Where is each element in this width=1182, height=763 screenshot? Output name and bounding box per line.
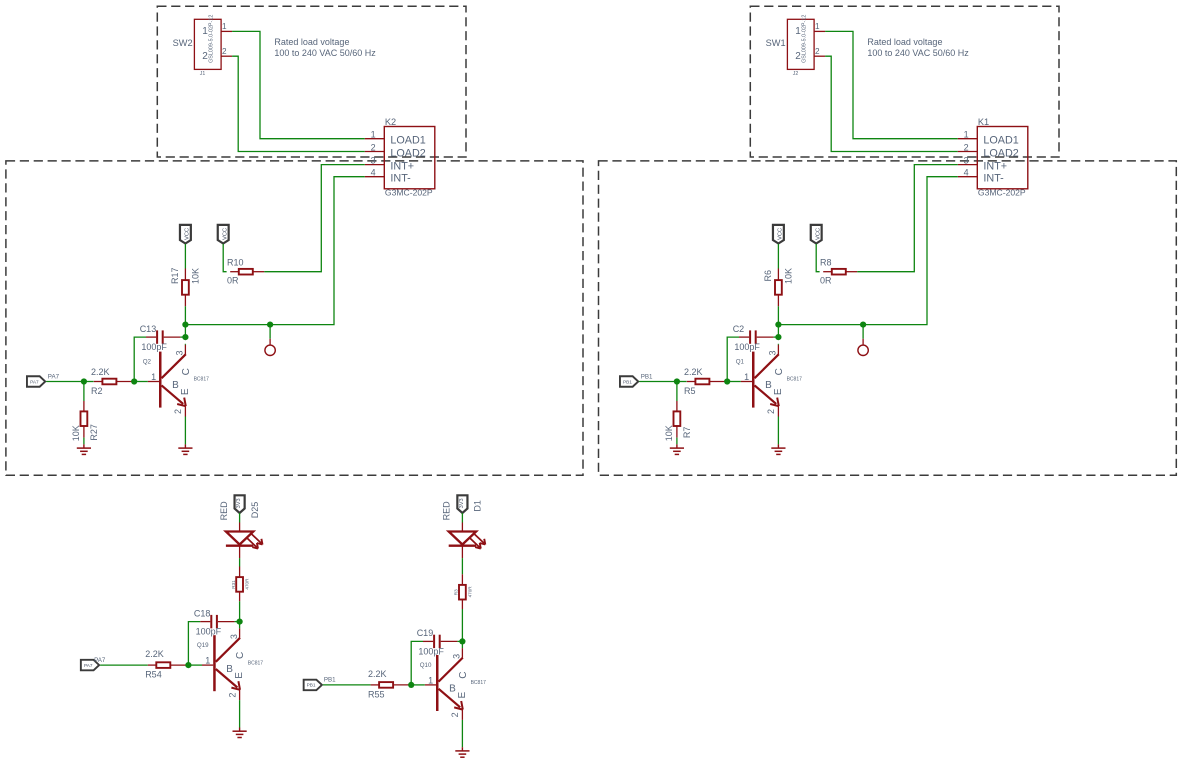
svg-text:VCC: VCC <box>223 228 229 240</box>
svg-text:VCC: VCC <box>778 228 784 240</box>
svg-text:2: 2 <box>173 409 183 414</box>
wire R pulldown to ground <box>676 438 678 445</box>
svg-text:100 to 240 VAC 50/60 Hz: 100 to 240 VAC 50/60 Hz <box>867 48 969 58</box>
junction LED-collector <box>237 619 243 625</box>
port flag PA7 <box>27 376 45 387</box>
port flag PB1 <box>304 680 322 691</box>
labels RED / diode name <box>219 501 260 521</box>
resistor R7 (10K) <box>664 401 692 441</box>
wire junction to base <box>411 684 425 686</box>
ground (emitter) <box>455 747 469 757</box>
wire 3V3 to LED <box>239 513 241 523</box>
svg-text:SW2: SW2 <box>173 38 193 48</box>
svg-text:3: 3 <box>371 155 376 165</box>
wire cap to base junction <box>188 622 200 666</box>
svg-text:B: B <box>765 380 772 391</box>
wire SW pin1 to K LOAD1 <box>232 31 365 138</box>
relay K2 (G3MC-202P) <box>365 117 435 198</box>
svg-text:RED: RED <box>442 501 452 521</box>
svg-text:100pF: 100pF <box>141 342 167 352</box>
resistor R6 (10K) <box>763 268 794 306</box>
svg-text:VCC: VCC <box>185 228 191 240</box>
note rated load voltage <box>867 37 969 58</box>
dashed frame (right load section) <box>750 6 1059 157</box>
ground (emitter) <box>771 444 785 454</box>
svg-text:1: 1 <box>151 372 156 382</box>
wire cap to junction <box>457 640 462 642</box>
svg-text:2.2K: 2.2K <box>368 669 387 679</box>
capacitor C19 (100pF) <box>417 628 458 656</box>
ground (emitter) <box>178 444 192 454</box>
supply VCC flag (0R column) <box>811 225 822 244</box>
connector SW1 (J2) <box>766 15 825 77</box>
svg-text:C: C <box>458 672 469 679</box>
junction base-pulldown <box>81 378 87 384</box>
wire cap to base junction <box>727 337 739 381</box>
svg-text:PB1: PB1 <box>623 379 632 384</box>
junction collector node <box>182 322 188 328</box>
resistor R2 <box>91 367 134 384</box>
svg-text:1: 1 <box>744 372 749 382</box>
svg-text:2: 2 <box>371 142 376 152</box>
svg-text:2.2K: 2.2K <box>91 367 110 377</box>
svg-text:E: E <box>773 388 784 395</box>
LED D25 (RED) <box>226 523 263 559</box>
svg-text:PA7: PA7 <box>30 379 39 384</box>
svg-text:LOAD1: LOAD1 <box>983 135 1018 147</box>
svg-text:100 to 240 VAC 50/60 Hz: 100 to 240 VAC 50/60 Hz <box>274 48 376 58</box>
capacitor C13 (100pF) <box>140 324 181 352</box>
labels RED / diode name <box>442 500 483 520</box>
svg-text:R17: R17 <box>170 267 180 284</box>
svg-text:2: 2 <box>227 693 237 698</box>
wire LED to R <box>461 558 463 574</box>
svg-text:R10: R10 <box>227 257 244 267</box>
resistor R31 (470R) <box>231 567 250 602</box>
dashed frame (left driver section) <box>6 161 583 475</box>
svg-text:R55: R55 <box>368 689 385 699</box>
wire cap to collector <box>773 336 778 338</box>
svg-text:GSL009-5.0-02P-12: GSL009-5.0-02P-12 <box>801 15 807 63</box>
supply VCC flag (0R column) <box>218 225 229 244</box>
wire junction to R base <box>84 381 94 383</box>
wire collector node to cap junction <box>184 325 186 338</box>
junction base <box>131 378 137 384</box>
capacitor C2 (100pF) <box>733 324 774 352</box>
capacitor C18 (100pF) <box>194 608 235 636</box>
svg-text:INT-: INT- <box>390 173 411 185</box>
wire K INT- to collector node <box>185 177 364 325</box>
wire port to R base <box>100 664 148 666</box>
svg-text:E: E <box>234 672 245 679</box>
relay K1 (G3MC-202P) <box>958 117 1028 198</box>
resistor R54 (2.2K) <box>145 649 188 680</box>
wire emitter to ground <box>461 720 463 747</box>
svg-text:3: 3 <box>229 634 239 639</box>
junction base <box>724 378 730 384</box>
svg-text:100pF: 100pF <box>418 646 444 656</box>
svg-text:R27: R27 <box>89 424 99 441</box>
wire R to collector junction <box>239 601 241 621</box>
resistor R8 <box>820 257 857 274</box>
port flag PA7 <box>81 660 99 671</box>
svg-text:2: 2 <box>964 142 969 152</box>
supply 3V3 <box>457 495 467 513</box>
svg-text:BC817: BC817 <box>248 660 264 666</box>
svg-text:10K: 10K <box>664 425 674 441</box>
svg-text:R8: R8 <box>820 257 832 267</box>
wire to open pin <box>269 325 271 339</box>
wire port to R base <box>323 684 371 686</box>
svg-text:R6: R6 <box>763 270 773 282</box>
transistor Q10 (BC817) NPN <box>420 648 486 720</box>
svg-text:3: 3 <box>452 654 462 659</box>
svg-text:10K: 10K <box>783 268 793 284</box>
wire emitter to ground <box>184 417 186 445</box>
svg-text:Q2: Q2 <box>143 359 152 366</box>
svg-text:VCC: VCC <box>816 228 822 240</box>
dashed frame (right driver section) <box>599 161 1177 475</box>
dashed frame (left load section) <box>157 6 466 157</box>
svg-text:R31: R31 <box>231 580 236 589</box>
supply VCC <box>180 225 191 244</box>
wire R 0R to K INT+ <box>264 165 365 272</box>
svg-text:Q19: Q19 <box>197 642 209 649</box>
svg-text:INT+: INT+ <box>390 161 414 173</box>
svg-text:Q1: Q1 <box>736 359 745 366</box>
wire port to base junction <box>46 381 84 383</box>
junction base <box>185 662 191 668</box>
wire junction to base <box>188 664 202 666</box>
svg-text:LOAD2: LOAD2 <box>390 148 425 160</box>
junction LED-collector <box>459 638 465 644</box>
svg-text:SW1: SW1 <box>766 38 786 48</box>
wire collector pin to cap junction <box>184 343 186 346</box>
svg-text:PA7: PA7 <box>48 374 60 381</box>
svg-text:100pF: 100pF <box>734 342 760 352</box>
svg-text:C2: C2 <box>733 324 745 334</box>
resistor R55 (2.2K) <box>368 669 411 700</box>
svg-text:2: 2 <box>815 47 820 56</box>
svg-text:J1: J1 <box>200 71 206 77</box>
svg-text:BC817: BC817 <box>194 377 210 383</box>
supply VCC <box>773 225 784 244</box>
svg-text:PB1: PB1 <box>641 374 653 381</box>
connector SW2 (J1) <box>173 15 232 77</box>
wire port to base junction <box>639 381 677 383</box>
wire VCC to R pullup <box>777 244 779 269</box>
wire to open pin <box>862 325 864 339</box>
svg-text:E: E <box>180 388 191 395</box>
wire R 0R to K INT+ <box>857 165 958 272</box>
svg-text:2.2K: 2.2K <box>145 649 164 659</box>
svg-text:C13: C13 <box>140 324 157 334</box>
note rated load voltage <box>274 37 376 58</box>
wire cap to collector <box>180 336 185 338</box>
svg-text:3: 3 <box>768 350 778 355</box>
open pin circle <box>265 339 275 356</box>
wire VCC to R 0R <box>223 244 226 272</box>
wire R pullup to collector node <box>777 306 779 324</box>
svg-text:R2: R2 <box>91 386 103 396</box>
svg-text:LOAD1: LOAD1 <box>390 135 425 147</box>
svg-text:0R: 0R <box>227 276 239 286</box>
svg-text:PA7: PA7 <box>84 663 93 668</box>
wire collector pin to cap junction <box>777 343 779 346</box>
junction cap-collector <box>182 334 188 340</box>
wire cap to junction <box>235 621 240 623</box>
junction test point <box>860 322 866 328</box>
svg-text:RED: RED <box>219 501 229 521</box>
svg-text:1: 1 <box>964 130 969 140</box>
svg-text:3V3: 3V3 <box>459 498 465 508</box>
svg-text:470R: 470R <box>467 586 472 598</box>
svg-text:C: C <box>235 652 246 659</box>
wire SW pin2 to K LOAD2 <box>232 56 365 151</box>
svg-text:INT+: INT+ <box>983 161 1007 173</box>
wire emitter to ground <box>777 417 779 445</box>
svg-text:470R: 470R <box>245 578 250 590</box>
open pin circle <box>858 339 868 356</box>
svg-text:PB1: PB1 <box>324 677 336 684</box>
svg-text:BC817: BC817 <box>787 377 803 383</box>
svg-text:INT-: INT- <box>983 173 1004 185</box>
svg-text:2.2K: 2.2K <box>684 367 703 377</box>
svg-text:C: C <box>774 368 785 375</box>
svg-text:1: 1 <box>371 130 376 140</box>
wire junction to R pulldown <box>83 382 85 402</box>
svg-text:PB1: PB1 <box>307 683 316 688</box>
wire R pullup to collector node <box>184 306 186 324</box>
svg-text:K1: K1 <box>978 117 989 127</box>
wire junction to transistor base <box>134 381 148 383</box>
wire cap to base junction <box>134 337 146 381</box>
svg-text:G3MC-202P: G3MC-202P <box>385 188 433 198</box>
svg-text:R3: R3 <box>454 589 459 595</box>
ground (emitter) <box>233 728 247 738</box>
junction collector node <box>775 322 781 328</box>
svg-text:1: 1 <box>205 656 210 666</box>
ground (pulldown) <box>670 444 684 454</box>
resistor R3 (470R) <box>454 574 473 609</box>
svg-text:C: C <box>181 368 192 375</box>
supply 3V3 <box>235 495 245 513</box>
svg-text:R7: R7 <box>682 427 692 439</box>
svg-text:PA7: PA7 <box>94 657 106 664</box>
wire cap to base junction <box>411 641 423 685</box>
wire junction to R pulldown <box>676 382 678 402</box>
svg-text:100pF: 100pF <box>196 627 222 637</box>
svg-text:R5: R5 <box>684 386 696 396</box>
wire collector pin up to junction <box>239 622 241 629</box>
svg-text:0R: 0R <box>820 276 832 286</box>
svg-text:1: 1 <box>428 675 433 685</box>
resistor R10 <box>227 257 264 274</box>
wire LED to R <box>239 558 241 566</box>
wire SW pin1 to K LOAD1 <box>825 31 958 138</box>
svg-text:LOAD2: LOAD2 <box>983 148 1018 160</box>
svg-text:1: 1 <box>815 22 820 31</box>
wire collector node to cap junction <box>777 325 779 338</box>
svg-text:1: 1 <box>222 22 227 31</box>
svg-text:B: B <box>226 664 233 675</box>
wire R pulldown to ground <box>83 438 85 445</box>
wire K INT- to collector node <box>778 177 957 325</box>
svg-text:G3MC-202P: G3MC-202P <box>978 188 1026 198</box>
resistor R27 (10K) <box>71 401 99 441</box>
svg-text:B: B <box>449 684 456 695</box>
svg-text:2: 2 <box>222 47 227 56</box>
svg-text:3V3: 3V3 <box>236 498 242 508</box>
svg-text:4: 4 <box>964 168 969 178</box>
wire junction to R base <box>677 381 687 383</box>
svg-text:C19: C19 <box>417 628 434 638</box>
svg-text:Rated load voltage: Rated load voltage <box>867 37 942 47</box>
wire R to collector junction <box>461 609 463 641</box>
svg-text:B: B <box>172 380 179 391</box>
wire emitter to ground <box>239 700 241 727</box>
LED D1 (RED) <box>449 523 486 559</box>
svg-text:K2: K2 <box>385 117 396 127</box>
svg-text:BC817: BC817 <box>471 680 487 686</box>
junction test point <box>267 322 273 328</box>
svg-text:D25: D25 <box>250 502 260 519</box>
wire 3V3 to LED <box>461 513 463 523</box>
svg-text:C18: C18 <box>194 608 211 618</box>
svg-text:D1: D1 <box>473 500 483 512</box>
wire VCC to R pullup <box>184 244 186 269</box>
resistor R5 <box>684 367 727 384</box>
transistor Q19 (BC817) NPN <box>197 628 263 700</box>
svg-text:10K: 10K <box>71 425 81 441</box>
svg-text:R54: R54 <box>145 670 162 680</box>
wire VCC to R 0R <box>816 244 819 272</box>
svg-text:E: E <box>457 692 468 699</box>
port flag PB1 <box>620 376 638 387</box>
svg-text:3: 3 <box>964 155 969 165</box>
svg-text:J2: J2 <box>793 71 799 77</box>
svg-text:GSL009-5.0-02P-12: GSL009-5.0-02P-12 <box>208 15 214 63</box>
svg-text:4: 4 <box>371 168 376 178</box>
resistor R17 (10K) <box>170 267 201 306</box>
junction base-pulldown <box>674 378 680 384</box>
svg-text:10K: 10K <box>190 268 200 284</box>
transistor Q2 (BC817) NPN <box>143 345 209 417</box>
junction base <box>408 682 414 688</box>
junction cap-collector <box>775 334 781 340</box>
wire junction to transistor base <box>727 381 741 383</box>
transistor Q1 (BC817) NPN <box>736 345 802 417</box>
svg-text:Rated load voltage: Rated load voltage <box>274 37 349 47</box>
svg-text:2: 2 <box>766 409 776 414</box>
svg-text:2: 2 <box>450 712 460 717</box>
svg-text:Q10: Q10 <box>420 662 432 669</box>
wire collector pin up to junction <box>461 641 463 648</box>
wire SW pin2 to K LOAD2 <box>825 56 958 151</box>
ground (pulldown) <box>77 444 91 454</box>
svg-text:3: 3 <box>175 350 185 355</box>
